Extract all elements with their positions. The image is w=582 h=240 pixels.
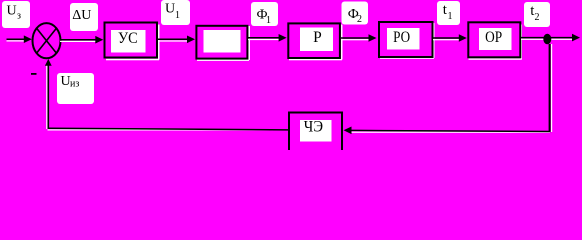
minus sign at summing junction [31,73,37,75]
summing junction (comparator) [33,23,61,58]
node deltaU label [70,3,98,31]
wire feedback left vertical up into summing junction [45,59,52,129]
svg-text:1: 1 [266,15,271,26]
block P (regulator Р) [288,23,342,60]
node Phi1 label [251,2,278,26]
wire block US to unnamed block [158,36,195,44]
svg-text:1: 1 [175,10,180,21]
svg-text:2: 2 [535,12,540,23]
svg-text:ΔU: ΔU [72,8,91,23]
wire summing junction to block US [60,36,103,44]
svg-text:Р: Р [313,29,322,46]
block RO (regulating organ РО) [379,22,435,59]
wire feedback right vertical [550,44,553,132]
wire feedback bottom left segment from ChE [48,128,289,130]
wire feedback bottom right segment into ChE [344,127,551,135]
block ChE (sensing element ЧЭ) [289,113,342,154]
svg-text:2: 2 [357,14,362,25]
svg-text:ЧЭ: ЧЭ [304,119,323,136]
wire block OR to output [521,34,580,42]
wire block RO to block OR [433,34,467,42]
svg-text:з: з [17,11,21,22]
node t1 label [437,1,460,25]
svg-text:из: из [70,79,79,90]
svg-text:УС: УС [118,30,138,47]
wire unnamed block to block P [248,34,287,42]
svg-text:U: U [7,4,17,19]
node U1 label [161,0,190,25]
block US (amplifier УС) [105,23,160,61]
wire block P to block RO [341,34,377,42]
node Phi2 label [342,2,369,26]
svg-text:U: U [165,1,175,16]
wire input arrow into summing junction [7,35,32,43]
svg-text:РО: РО [393,29,410,46]
node t2 junction dot [543,34,551,45]
unnamed block (regulator setter, empty) [196,26,250,61]
block OR (controlled object ОР) [468,22,522,60]
node U3 input label [2,1,30,28]
svg-text:1: 1 [448,11,453,22]
svg-text:ОР: ОР [485,29,502,46]
node t2 label [524,2,550,27]
node Uiz feedback label [57,73,94,104]
